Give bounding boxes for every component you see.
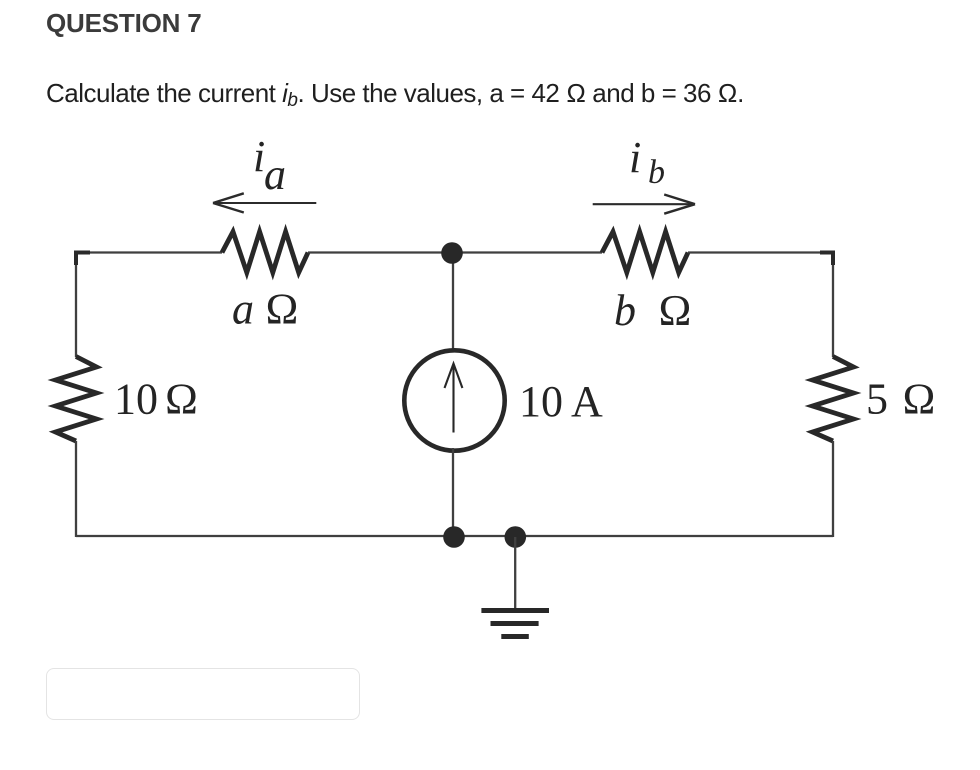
resistor Ra (a ohm) zigzag [222,232,308,273]
resistor 10 ohm vertical zigzag [56,357,97,442]
wire right vertical lower [832,441,834,537]
wire right vertical upper [832,252,834,358]
current source arrow [445,364,463,433]
wire ground stem [514,537,516,609]
svg-text:5: 5 [866,375,888,424]
svg-text:a: a [232,285,254,334]
svg-text:b: b [648,154,665,191]
question heading [46,8,201,39]
svg-text:Ω: Ω [902,375,936,424]
wire bottom horizontal [76,535,833,537]
current arrow ib [593,195,695,214]
wire top-right horizontal [688,251,833,253]
current arrow ia [213,193,316,212]
wire left vertical lower [75,441,77,537]
resistor Rb (b ohm) zigzag [602,232,688,273]
answer input box [46,668,360,720]
node top center junction dot [441,242,463,264]
node ground junction dot [505,526,527,548]
wire center top vertical [452,253,454,353]
current source I1 circle [404,350,504,450]
svg-text:b: b [614,286,636,335]
svg-text:i: i [629,133,641,182]
wire corner elbow top-right [820,253,833,266]
ground symbol [481,611,549,637]
wire center bottom vertical [452,448,454,537]
svg-text:Ω: Ω [265,285,299,334]
svg-text:10: 10 [519,377,563,426]
question prompt text [46,78,744,109]
svg-text:10: 10 [114,375,158,424]
node bottom center junction dot [443,526,465,548]
svg-text:Ω: Ω [658,286,692,335]
resistor 5 ohm vertical zigzag [813,357,854,442]
svg-text:Ω: Ω [165,375,199,424]
wire top-middle horizontal [308,251,602,253]
wire top-left horizontal [76,251,222,253]
wire left vertical upper [75,252,77,358]
svg-text:a: a [264,150,286,199]
wire corner elbow top-left [76,253,90,266]
svg-text:A: A [571,377,603,426]
